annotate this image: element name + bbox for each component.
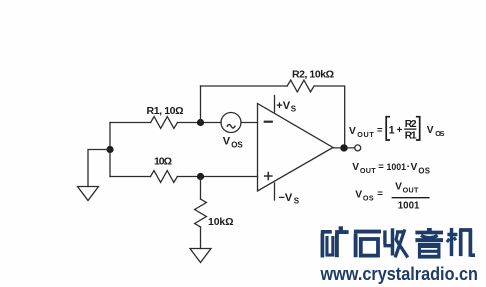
svg-text:10kΩ: 10kΩ [208, 216, 234, 228]
label R1 value [147, 105, 184, 117]
watermark char 2 (shi) [354, 232, 381, 258]
watermark char 3 (shou) [384, 228, 408, 257]
equation 3: VOS = VOUT / 1001 [355, 182, 429, 212]
ground GND2 [190, 249, 211, 263]
watermark char 5 (ji) [447, 228, 475, 257]
watermark: logo characters (kuang shi shou yin ji) [321, 226, 475, 258]
wire: top row lead into R1 [110, 122, 151, 124]
voltage source VOS [221, 113, 241, 133]
watermark char 1 (kuang) [321, 226, 349, 257]
pin +VS [274, 96, 276, 113]
equation 2: VOUT = 1001 x VOS [352, 161, 430, 175]
resistor R1 [151, 117, 178, 129]
op-amp non-inverting input sign [265, 173, 272, 180]
wire: feedback up from summing node [200, 86, 202, 123]
wire: left branch to ground [88, 150, 110, 187]
svg-text:−V: −V [279, 192, 293, 204]
svg-text:1001: 1001 [398, 200, 420, 211]
svg-text:OUT: OUT [403, 186, 419, 195]
svg-text:OUT: OUT [360, 166, 376, 175]
wire: second row lead into R3 [110, 176, 151, 178]
svg-text:1: 1 [389, 124, 395, 136]
svg-text:OUT: OUT [357, 130, 374, 139]
wire: R1 to inverting summing node [178, 122, 222, 124]
svg-text:S: S [291, 105, 297, 114]
wire: feedback top run to R2 [201, 85, 288, 87]
svg-text:R1: R1 [405, 131, 417, 142]
label +VS [276, 100, 297, 114]
junction: left node [106, 146, 113, 153]
svg-text:R1, 10Ω: R1, 10Ω [147, 105, 184, 117]
op-amp U1 [258, 104, 334, 192]
terminal VOUT (open circle) [355, 145, 361, 151]
watermark URL text [320, 264, 478, 284]
label R2 value [292, 69, 334, 81]
wire: op-amp output [333, 147, 355, 149]
junction: inverting summing node [197, 119, 204, 126]
svg-text:OS: OS [418, 166, 430, 175]
resistor R4 (10k vertical) [195, 199, 207, 227]
svg-text:V: V [223, 136, 231, 148]
svg-text:10Ω: 10Ω [154, 156, 172, 168]
wire: R2 to output node [314, 86, 345, 148]
wire: left vertical bus [109, 123, 111, 177]
svg-text:=: = [378, 161, 384, 172]
op-amp inverting input sign [265, 121, 272, 123]
svg-text:R2: R2 [405, 119, 417, 130]
svg-text:www.crystalradio.cn: www.crystalradio.cn [320, 264, 478, 284]
svg-text:S: S [294, 196, 300, 205]
svg-text:OS: OS [363, 194, 374, 203]
equation 1: VOUT = [1 + R2/R1] VOS [349, 117, 445, 142]
ground GND1 [78, 187, 99, 201]
svg-text:V: V [427, 125, 434, 136]
wire: non-inverting node down to R4 [200, 177, 202, 200]
wire: R4 to ground [200, 227, 202, 249]
svg-text:V: V [349, 126, 356, 137]
label R4 value [208, 216, 234, 228]
resistor R2 [287, 80, 314, 92]
label -VS [279, 192, 300, 206]
wire: VOS to op-amp inverting input [241, 122, 258, 124]
pin -VS [274, 183, 276, 200]
svg-text:V: V [355, 190, 362, 201]
svg-text:V: V [395, 182, 402, 193]
svg-text:=: = [377, 189, 383, 200]
label VOS (source) [223, 136, 244, 150]
watermark char 4 (yin) [415, 228, 443, 259]
svg-text:R2, 10kΩ: R2, 10kΩ [292, 69, 334, 81]
label R3 value [154, 156, 172, 168]
junction: output node [340, 144, 347, 151]
svg-text:+: + [397, 125, 403, 136]
wire: R3 to non-inverting node [177, 176, 257, 178]
svg-text:=: = [377, 125, 383, 136]
junction: non-inverting node [197, 173, 204, 180]
resistor R3 (10 ohm) [151, 171, 178, 183]
svg-text:OS: OS [231, 141, 243, 150]
svg-text:V: V [352, 162, 359, 173]
svg-text:+V: +V [276, 100, 290, 112]
svg-text:1001: 1001 [387, 162, 407, 172]
svg-text:V: V [411, 162, 418, 173]
svg-text:OS: OS [435, 129, 444, 138]
